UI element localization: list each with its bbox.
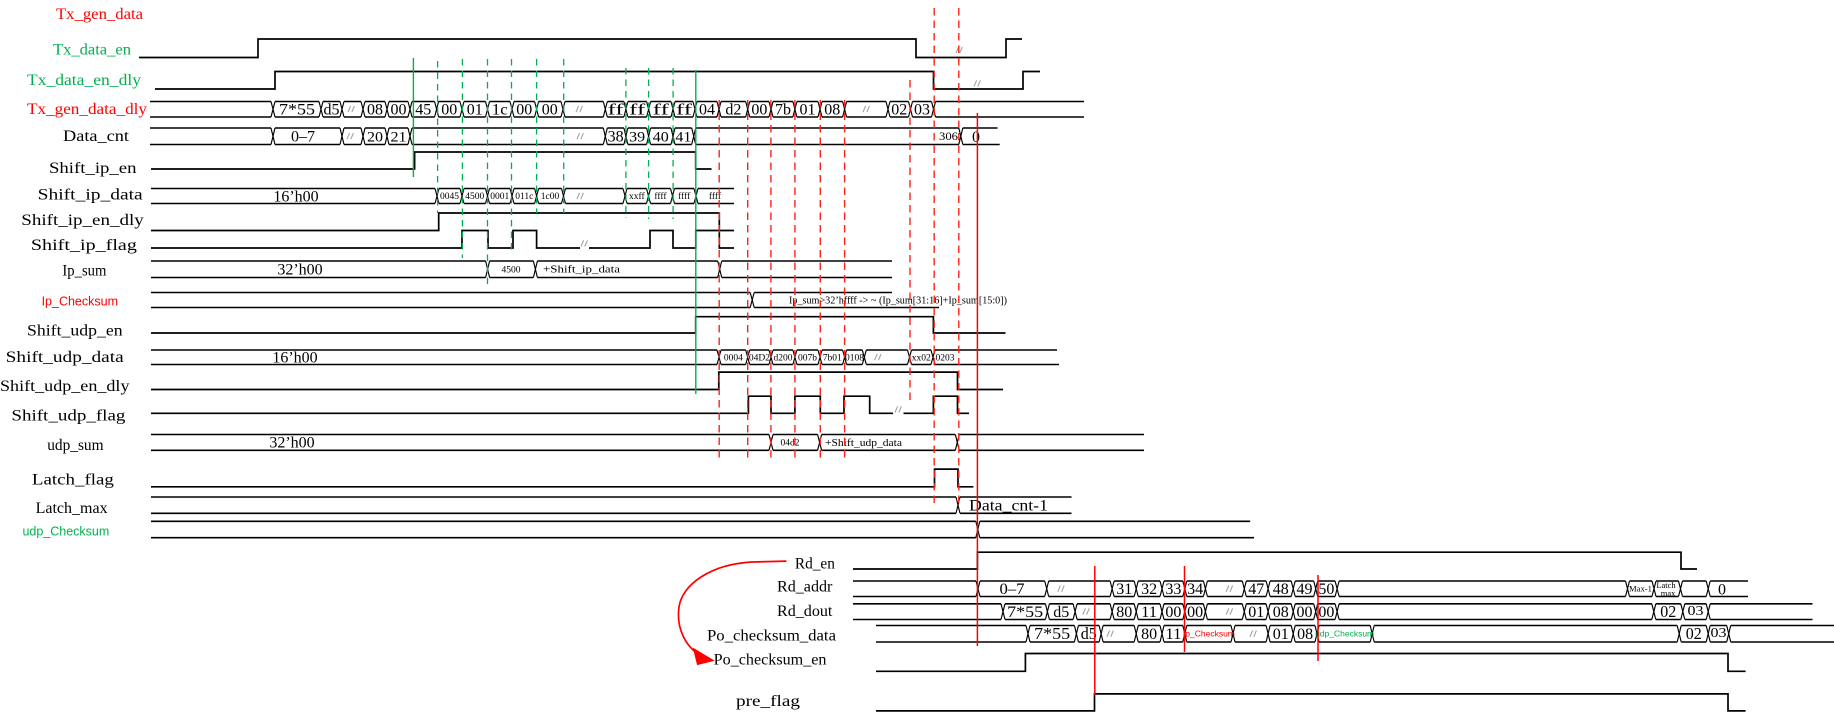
svg-text:0045: 0045 (440, 192, 459, 202)
svg-text:Latch_flag: Latch_flag (32, 472, 114, 489)
svg-text:udp_Checksum: udp_Checksum (1315, 629, 1374, 639)
svg-text:0108: 0108 (845, 353, 864, 363)
svg-text:45: 45 (415, 102, 431, 119)
svg-text:7b: 7b (775, 102, 791, 119)
svg-text:08: 08 (824, 102, 840, 119)
svg-text:0001: 0001 (490, 192, 509, 202)
svg-text:00: 00 (1187, 604, 1203, 621)
svg-text:20: 20 (367, 130, 383, 146)
svg-text:04d2: 04d2 (781, 439, 800, 449)
svg-text:Shift_ip_data: Shift_ip_data (38, 187, 143, 204)
svg-text:pre_flag: pre_flag (736, 693, 800, 710)
svg-text:Tx_gen_data: Tx_gen_data (56, 6, 143, 23)
svg-text:7*55: 7*55 (1034, 624, 1070, 643)
svg-text:Rd_en: Rd_en (795, 555, 835, 572)
svg-text:011c: 011c (515, 192, 533, 202)
svg-text:Shift_ip_en: Shift_ip_en (49, 160, 137, 177)
svg-text:7*55: 7*55 (279, 102, 315, 119)
svg-text:02: 02 (891, 102, 907, 119)
svg-text:ffff: ffff (709, 191, 722, 202)
svg-text:udp_Checksum: udp_Checksum (22, 524, 109, 538)
svg-text:ffff: ffff (678, 191, 691, 202)
svg-text:ff: ff (629, 102, 646, 119)
svg-text:Max-1: Max-1 (1629, 584, 1652, 594)
svg-text:33: 33 (1165, 581, 1181, 598)
svg-text:02: 02 (1660, 602, 1676, 621)
svg-text:41: 41 (675, 130, 691, 146)
svg-text:0004: 0004 (724, 353, 743, 363)
svg-text:48: 48 (1273, 581, 1289, 598)
svg-text:03: 03 (1688, 604, 1704, 619)
svg-text:80: 80 (1141, 626, 1157, 643)
svg-text:Ip_sum: Ip_sum (62, 263, 106, 280)
svg-text:306: 306 (939, 129, 958, 143)
svg-text:Shift_udp_flag: Shift_udp_flag (11, 408, 125, 425)
svg-text:7b01: 7b01 (823, 353, 842, 363)
svg-text:00: 00 (516, 102, 532, 119)
svg-text:007b: 007b (798, 353, 817, 363)
svg-text:0203: 0203 (936, 353, 955, 363)
svg-text:80: 80 (1116, 604, 1132, 621)
svg-text:00: 00 (391, 102, 407, 119)
svg-text:xxff: xxff (629, 191, 645, 202)
svg-text:+Shift_udp_data: +Shift_udp_data (825, 438, 902, 449)
svg-text:d2: d2 (725, 102, 741, 119)
svg-text:01: 01 (1273, 626, 1289, 643)
svg-text:00: 00 (1297, 604, 1313, 621)
svg-text:d5: d5 (324, 102, 340, 119)
svg-text:ff: ff (608, 102, 625, 119)
svg-text:7*55: 7*55 (1007, 604, 1043, 621)
svg-text:02: 02 (1686, 624, 1702, 643)
svg-text:Po_checksum_data: Po_checksum_data (707, 628, 836, 645)
svg-text:Data_cnt: Data_cnt (63, 128, 130, 145)
svg-text:Rd_dout: Rd_dout (777, 603, 833, 620)
svg-text:38: 38 (608, 129, 624, 146)
svg-text:03: 03 (1711, 626, 1727, 641)
svg-text:+Shift_ip_data: +Shift_ip_data (543, 265, 620, 276)
svg-text:00: 00 (1318, 604, 1334, 621)
svg-text:32’h00: 32’h00 (277, 262, 322, 279)
svg-text:50: 50 (1318, 581, 1334, 598)
svg-text:4500: 4500 (465, 192, 484, 202)
svg-text:udp_sum: udp_sum (47, 437, 103, 454)
svg-text:11: 11 (1165, 626, 1181, 643)
svg-text:Shift_ip_flag: Shift_ip_flag (31, 237, 137, 254)
svg-text:Latch_max: Latch_max (36, 500, 108, 517)
svg-text:00: 00 (441, 102, 457, 119)
svg-text:Tx_data_en: Tx_data_en (53, 42, 131, 59)
svg-text:ff: ff (653, 102, 670, 119)
svg-text:0–7: 0–7 (291, 129, 315, 146)
svg-text:ffff: ffff (654, 191, 667, 202)
svg-text:11: 11 (1141, 604, 1157, 621)
svg-text:0–7: 0–7 (1000, 581, 1025, 598)
svg-text:Shift_udp_data: Shift_udp_data (6, 349, 124, 366)
svg-text:08: 08 (367, 102, 383, 119)
svg-text:00: 00 (542, 102, 558, 119)
svg-text:00: 00 (1165, 604, 1181, 621)
svg-text:31: 31 (1116, 581, 1132, 598)
svg-text:01: 01 (1248, 604, 1264, 621)
svg-text:Shift_ip_en_dly: Shift_ip_en_dly (21, 212, 144, 229)
svg-text:40: 40 (653, 130, 669, 146)
svg-text:01: 01 (467, 102, 483, 119)
svg-text:39: 39 (629, 130, 645, 146)
svg-text:_max: _max (1656, 588, 1677, 598)
svg-text:08: 08 (1273, 604, 1289, 621)
svg-text:Ip_Checksum: Ip_Checksum (42, 294, 118, 308)
svg-text:Shift_udp_en: Shift_udp_en (27, 323, 123, 340)
svg-text:03: 03 (914, 102, 930, 119)
svg-text:16’h00: 16’h00 (272, 350, 317, 367)
svg-text:d200: d200 (774, 353, 793, 363)
svg-text:08: 08 (1297, 626, 1313, 643)
svg-text:01: 01 (800, 102, 816, 119)
svg-text:xx02: xx02 (912, 353, 931, 363)
svg-text:47: 47 (1248, 581, 1264, 598)
svg-text:32: 32 (1141, 581, 1157, 598)
svg-text:04: 04 (699, 102, 715, 119)
svg-text:Ip_sum>32’hffff -> ~ (Ip_sum[3: Ip_sum>32’hffff -> ~ (Ip_sum[31:16]+Ip_s… (789, 296, 1007, 307)
svg-text:00: 00 (751, 102, 767, 119)
svg-text:04D2: 04D2 (749, 353, 770, 363)
svg-text:d5: d5 (1053, 604, 1069, 621)
svg-text:49: 49 (1297, 581, 1313, 598)
svg-text:1c00: 1c00 (541, 192, 560, 202)
svg-text:Ip_Checksum: Ip_Checksum (1183, 629, 1235, 639)
svg-text:Rd_addr: Rd_addr (777, 579, 833, 596)
svg-text:21: 21 (391, 130, 407, 146)
svg-text:34: 34 (1187, 581, 1203, 598)
svg-text:0: 0 (1718, 581, 1726, 598)
svg-text:4500: 4500 (502, 265, 521, 275)
svg-text:32’h00: 32’h00 (269, 435, 314, 452)
svg-text:Shift_udp_en_dly: Shift_udp_en_dly (0, 378, 130, 395)
svg-text:ff: ff (676, 102, 693, 119)
svg-text:16’h00: 16’h00 (273, 188, 318, 205)
svg-text:Tx_data_en_dly: Tx_data_en_dly (27, 72, 141, 89)
svg-text:Tx_gen_data_dly: Tx_gen_data_dly (27, 101, 147, 118)
svg-text:1c: 1c (492, 102, 508, 119)
svg-text:Po_checksum_en: Po_checksum_en (714, 651, 827, 668)
svg-text:Data_cnt-1: Data_cnt-1 (969, 498, 1048, 515)
svg-text:0: 0 (972, 129, 980, 146)
